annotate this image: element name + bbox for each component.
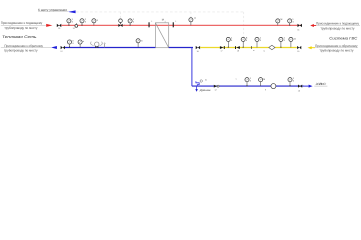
- manometer M3: [128, 18, 135, 25]
- valve V4 cold water: [196, 46, 200, 53]
- leader supply left: [1, 24, 46, 26]
- pump P1: [265, 84, 276, 92]
- valve V5: [235, 46, 240, 53]
- svg-text:трубопроводу по месту: трубопроводу по месту: [4, 48, 38, 52]
- thermometer T7: [289, 37, 297, 47]
- control valve K1 with actuator: [118, 19, 125, 27]
- pipe cold water bottom: [192, 85, 304, 87]
- arrow circulation inlet: [308, 46, 316, 49]
- leader circulation right: [315, 47, 358, 49]
- arrow cold water out: [304, 85, 313, 88]
- temperature sensor T2: [189, 17, 196, 25]
- manometer M9: [245, 77, 252, 86]
- pressure regulator R1: [91, 42, 106, 49]
- valve V1: [57, 24, 62, 27]
- svg-text:ХВС: ХВС: [314, 82, 328, 86]
- manometer M7: [255, 37, 262, 48]
- arrow return outlet: [51, 46, 57, 49]
- manometer M10: [288, 77, 295, 86]
- svg-text:Присоединение к обратному: Присоединение к обратному: [315, 44, 358, 48]
- thermometer pocket flange left of HX: [149, 20, 153, 27]
- leader under cabinet label: [38, 10, 68, 12]
- valve V6 circulation inlet: [297, 46, 301, 53]
- control dashed line horizontal: [76, 11, 244, 13]
- leader return left: [1, 47, 51, 49]
- junction tap circle on supply: [73, 23, 78, 30]
- pipe cold water yellow: [200, 47, 297, 49]
- thermometer T6: [226, 37, 233, 48]
- svg-text:трубопроводу по месту: трубопроводу по месту: [320, 49, 354, 53]
- temperature sensor T3: [241, 37, 248, 48]
- svg-text:Присоединение к подающему: Присоединение к подающему: [316, 22, 359, 26]
- svg-text:18: 18: [237, 50, 239, 53]
- control dashed drop to sensor T2: [190, 12, 192, 18]
- node cold water tee: [191, 48, 193, 87]
- svg-text:М: М: [263, 78, 265, 81]
- manometer M1: [80, 18, 87, 25]
- check valve CV2: [214, 85, 219, 92]
- control arrow to cabinet: [68, 10, 76, 13]
- manometer M2: [92, 19, 99, 26]
- svg-text:М: М: [162, 18, 164, 21]
- svg-text:21: 21: [205, 79, 207, 82]
- svg-text:12: 12: [215, 89, 217, 92]
- heat exchanger W1: [155, 23, 168, 48]
- arrow supply inlet: [46, 24, 52, 27]
- drain outlet: [195, 86, 210, 92]
- svg-text:17: 17: [221, 50, 223, 53]
- svg-text:Присоединение к подающему: Присоединение к подающему: [1, 21, 43, 25]
- svg-text:М: М: [281, 18, 283, 21]
- thermometer T4: [288, 18, 295, 25]
- thermometer T8: [259, 78, 266, 86]
- valve V7 cold water outlet: [298, 85, 302, 93]
- leader DHW supply right: [317, 25, 361, 27]
- label M of heat exchanger: [162, 18, 165, 22]
- safety valve SV1: [196, 79, 207, 87]
- check valve CV1: [220, 46, 225, 53]
- arrow DHW supply: [310, 24, 316, 27]
- pipe heating return blue right of HX: [169, 47, 193, 49]
- thermometer pocket flange right of HX: [173, 20, 177, 27]
- pipe heating return blue left: [65, 47, 155, 49]
- svg-text:1: 1: [151, 20, 152, 23]
- thermometer T5: [67, 39, 74, 47]
- control dashed drop to valve K1: [120, 12, 122, 18]
- label XBC: [314, 82, 328, 86]
- control dashed drop to sensor T3: [243, 12, 245, 37]
- svg-text:Система ГВС: Система ГВС: [329, 36, 357, 40]
- svg-text:1: 1: [175, 20, 176, 23]
- manometer M8: [279, 37, 286, 48]
- svg-text:Тепловая Сеть: Тепловая Сеть: [2, 35, 37, 39]
- manometer M4: [276, 18, 283, 26]
- svg-text:12: 12: [73, 27, 75, 30]
- thermometer T1: [67, 18, 74, 25]
- valve V3: [60, 46, 65, 53]
- svg-text:трубопроводу по месту: трубопроводу по месту: [4, 26, 37, 30]
- pipe heating supply red: [61, 24, 302, 26]
- svg-text:9: 9: [265, 88, 266, 91]
- filter F1: [269, 45, 275, 50]
- svg-text:Дренаж: Дренаж: [199, 89, 211, 92]
- valve V2 DHW supply outlet: [297, 24, 302, 32]
- pipe tap tick: [252, 46, 255, 52]
- manometer M5: [78, 40, 85, 48]
- svg-text:трубопроводу по месту: трубопроводу по месту: [321, 26, 355, 30]
- svg-text:Присоединение к обратному: Присоединение к обратному: [4, 44, 43, 48]
- manometer M6: [136, 39, 143, 48]
